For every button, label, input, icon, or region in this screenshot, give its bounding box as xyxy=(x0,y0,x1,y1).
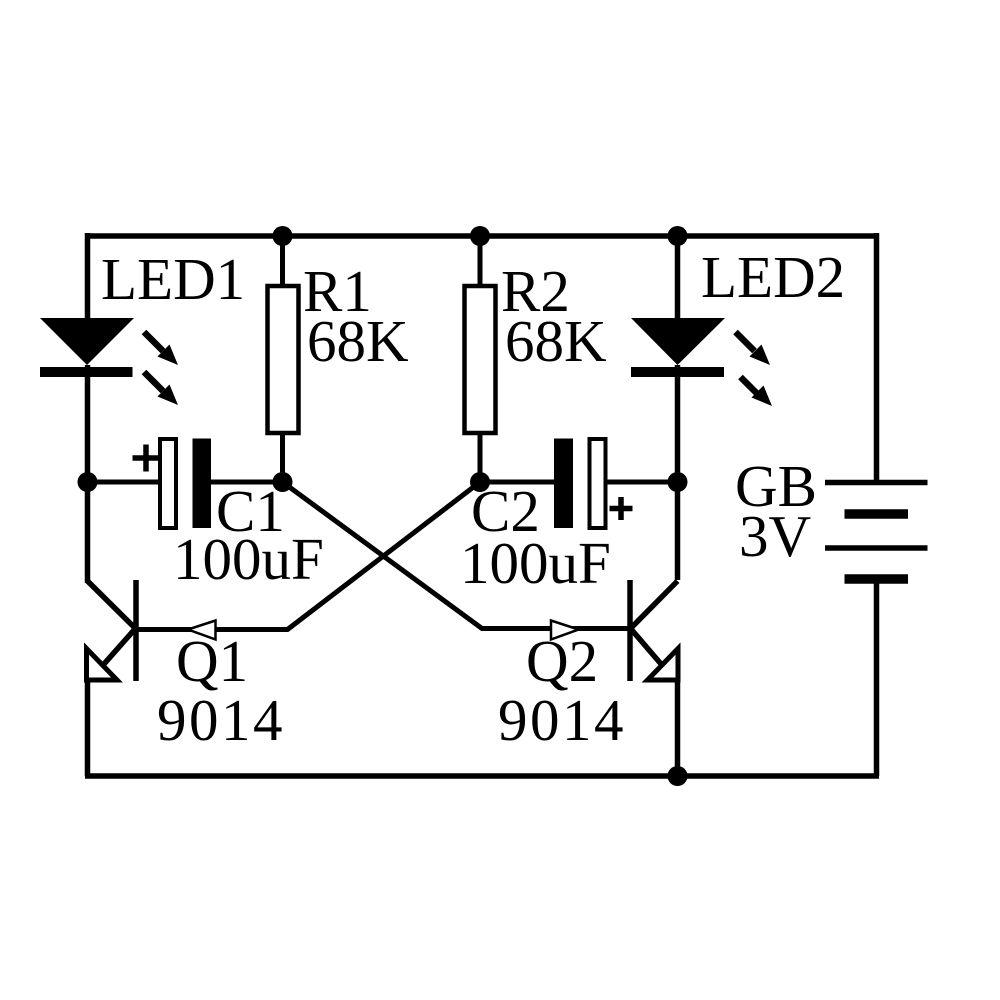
label R1 value 68K xyxy=(307,308,409,374)
wire left rail lower xyxy=(85,680,91,776)
wire left rail middle xyxy=(85,365,91,583)
label C2 value 100uF xyxy=(460,530,611,596)
svg-text:9014: 9014 xyxy=(157,687,285,753)
wire cross-couple C2 node to Q1 base xyxy=(138,482,480,640)
wire bottom rail xyxy=(85,773,879,779)
label C2 xyxy=(471,478,540,544)
node top LED2 junction xyxy=(668,226,688,246)
svg-text:Q1: Q1 xyxy=(176,628,248,694)
wire Q2 emitter to bottom rail xyxy=(675,680,681,776)
label C1 xyxy=(216,478,285,544)
capacitor C1 xyxy=(88,439,283,529)
node C1 R1 junction xyxy=(273,472,293,492)
resistor R2 xyxy=(465,236,496,482)
label C1 value 100uF xyxy=(173,526,324,592)
svg-text:3V: 3V xyxy=(739,503,811,569)
node LED1 C1 junction xyxy=(78,472,98,492)
LED1 xyxy=(40,318,178,405)
wire cross-couple C1 node to Q2 base xyxy=(283,482,629,640)
wire top rail xyxy=(85,233,879,239)
node C2 LED2 junction xyxy=(668,472,688,492)
label GB value 3V xyxy=(739,503,811,569)
wire LED2 cathode to node xyxy=(675,365,681,580)
node Q2 emitter bottom junction xyxy=(668,766,688,786)
svg-text:68K: 68K xyxy=(307,308,409,374)
label Q2 value 9014 xyxy=(498,687,626,753)
label R2 value 68K xyxy=(505,308,607,374)
node C2 R2 junction xyxy=(470,472,490,492)
label Q1 xyxy=(176,628,248,694)
transistor Q1 xyxy=(87,580,137,681)
svg-text:LED2: LED2 xyxy=(701,244,845,310)
svg-text:Q2: Q2 xyxy=(526,628,598,694)
svg-text:9014: 9014 xyxy=(498,687,626,753)
node top R2 junction xyxy=(470,226,490,246)
label LED2 xyxy=(701,244,845,310)
battery GB xyxy=(825,483,928,580)
resistor R1 xyxy=(268,236,299,482)
label R1 xyxy=(303,258,372,324)
svg-text:100uF: 100uF xyxy=(173,526,324,592)
svg-text:100uF: 100uF xyxy=(460,530,611,596)
svg-text:68K: 68K xyxy=(505,308,607,374)
svg-text:LED1: LED1 xyxy=(101,246,245,312)
label LED1 xyxy=(101,246,245,312)
wire left rail upper xyxy=(85,233,91,320)
label Q1 value 9014 xyxy=(157,687,285,753)
LED2 xyxy=(631,236,772,406)
label GB xyxy=(735,453,817,519)
capacitor C2 xyxy=(480,439,678,529)
label R2 xyxy=(501,258,570,324)
wire right rail lower xyxy=(874,579,880,776)
node top R1 junction xyxy=(273,226,293,246)
wire right rail upper xyxy=(874,233,880,482)
label Q2 xyxy=(526,628,598,694)
transistor Q2 xyxy=(630,580,678,681)
